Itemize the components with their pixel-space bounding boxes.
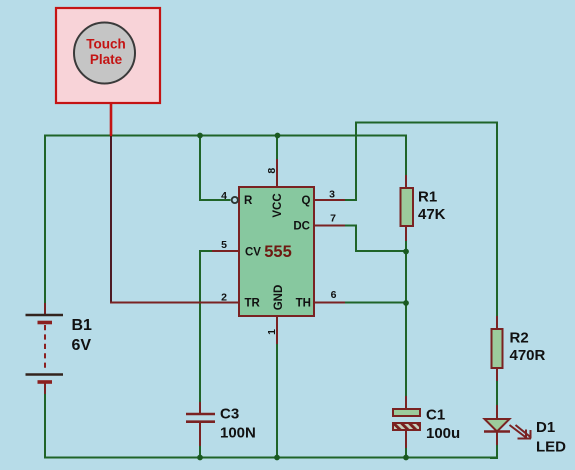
svg-text:TH: TH	[296, 298, 311, 310]
pin stub C1 top	[405, 396, 407, 409]
junction node top rail at pin4 branch	[197, 133, 203, 139]
wire pin1 GND vertical	[276, 344, 278, 458]
wire top rail VCC net	[45, 135, 406, 137]
wire C3 bottom to ground	[199, 446, 201, 458]
wire R2 to LED middle segment	[496, 381, 498, 405]
wire R1 bottom to junctions and C1	[405, 240, 407, 396]
wire pin8 vertical	[276, 135, 278, 160]
pin stub R2 top	[496, 316, 498, 329]
junction node ground rail at pin1	[274, 455, 280, 461]
pin stub C3 top	[199, 402, 201, 414]
pin stub IC pin7	[314, 225, 345, 227]
pin stub LED cathode	[496, 431, 498, 445]
pin stub IC pin3	[314, 199, 345, 201]
pin touch plate red	[110, 103, 113, 136]
touch plate label	[86, 37, 126, 68]
svg-text:47K: 47K	[418, 206, 446, 223]
wire touch plate net horizontal to TR pin2	[110, 302, 239, 304]
svg-text:C3: C3	[220, 406, 239, 423]
wire R1 top vertical	[405, 135, 407, 176]
junction node ground rail at C1	[403, 455, 409, 461]
wire TH pin6 net	[345, 302, 406, 304]
battery B1 cell1 short plate	[38, 321, 53, 325]
pin stub battery bottom	[44, 383, 46, 394]
pin stub C1 bottom	[405, 430, 407, 448]
wire C1 bottom to ground	[405, 448, 407, 458]
junction node TH meets C1 vertical	[403, 300, 409, 306]
pin stub R1 top	[405, 175, 407, 188]
svg-text:6V: 6V	[72, 337, 92, 354]
svg-text:R1: R1	[418, 189, 437, 206]
pin stub battery top	[44, 303, 46, 314]
svg-text:D1: D1	[536, 419, 555, 436]
svg-text:VCC: VCC	[272, 193, 284, 217]
pin stub LED anode	[496, 405, 498, 419]
pin stub IC pin6	[314, 302, 345, 304]
wire LED cathode to ground	[490, 445, 497, 458]
wire Q output top rail	[356, 122, 497, 124]
touch plate disc	[74, 23, 135, 84]
wire pin4 reset branch	[200, 135, 231, 201]
resistor R1 body	[401, 188, 414, 226]
svg-text:TR: TR	[245, 298, 261, 310]
battery B1 dashed link	[44, 325, 46, 368]
wire bottom ground rail	[44, 457, 497, 459]
svg-text:470R: 470R	[510, 347, 546, 364]
svg-text:Plate: Plate	[90, 52, 123, 67]
op-amp U1 555 IC body	[239, 187, 314, 316]
svg-text:C1: C1	[426, 407, 445, 424]
pin stub C3 bottom	[199, 423, 201, 446]
pin stub R2 bottom	[496, 368, 498, 381]
svg-text:4: 4	[221, 190, 227, 202]
junction node DC meets R1 bottom	[403, 249, 409, 255]
resistor R2 body	[492, 329, 503, 368]
battery B1 cell2 short plate	[38, 380, 53, 384]
svg-text:1: 1	[266, 329, 278, 335]
diode D1 arrow 2	[516, 425, 532, 439]
capacitor C3 plates	[186, 414, 215, 422]
capacitor C1 top plate	[393, 409, 420, 416]
pin stub R1 bottom	[405, 226, 407, 241]
battery B1 cell1 long plate	[26, 314, 64, 316]
pin stub IC pin5	[212, 250, 239, 252]
svg-text:B1: B1	[72, 317, 93, 334]
svg-text:7: 7	[330, 213, 336, 225]
svg-text:2: 2	[221, 292, 227, 304]
svg-text:555: 555	[264, 243, 292, 261]
svg-text:R2: R2	[510, 330, 529, 347]
wire Q output vertical	[345, 122, 356, 201]
diode D1 cathode bar	[484, 430, 510, 432]
svg-text:5: 5	[221, 239, 227, 251]
diode D1 arrow 1	[510, 425, 527, 439]
pin 4 inversion bubble	[232, 197, 238, 203]
wire pin5 CV branch down to C3	[200, 251, 212, 402]
pin stub IC pin8	[276, 159, 278, 187]
svg-text:Touch: Touch	[86, 37, 126, 52]
svg-text:DC: DC	[293, 221, 310, 233]
wire right vertical to R2	[496, 122, 498, 317]
junction node ground rail at C3	[197, 455, 203, 461]
junction node top rail at pin8	[275, 133, 281, 139]
svg-text:100u: 100u	[426, 425, 460, 442]
svg-text:100N: 100N	[220, 425, 256, 442]
wire touch plate net vertical dark	[110, 135, 112, 303]
diode D1 LED triangle	[485, 419, 510, 432]
svg-text:CV: CV	[245, 247, 261, 259]
svg-text:Q: Q	[302, 195, 311, 207]
touch plate box	[56, 8, 160, 103]
pin stub IC pin1	[276, 316, 278, 344]
svg-text:3: 3	[329, 189, 335, 201]
svg-text:8: 8	[266, 168, 278, 174]
svg-text:GND: GND	[273, 285, 285, 311]
svg-text:LED: LED	[536, 438, 566, 455]
wire battery bottom to ground rail	[44, 394, 46, 458]
svg-text:6: 6	[331, 289, 337, 301]
battery B1 cell2 long plate	[26, 373, 64, 375]
svg-text:R: R	[244, 195, 253, 207]
wire left vertical to battery	[44, 135, 46, 304]
wire DC pin7 net	[345, 226, 406, 252]
